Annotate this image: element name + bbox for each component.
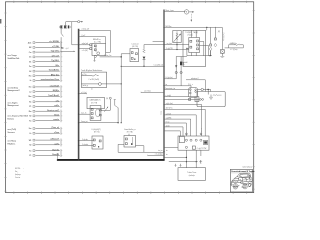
svg-text:x-C(w)l: x-C(w)l — [166, 113, 172, 115]
svg-text:C+lp.de: C+lp.de — [82, 139, 88, 141]
svg-text:C+km_1w: C+km_1w — [104, 55, 112, 57]
svg-text:GNx: GNx — [55, 65, 59, 67]
svg-text:x(10): x(10) — [166, 125, 170, 127]
svg-text:P1: P1 — [29, 106, 31, 108]
svg-text:Main_Lynx: Main_Lynx — [166, 10, 174, 12]
svg-text:Z1: Z1 — [29, 155, 31, 157]
svg-text:x (Tx): x (Tx) — [82, 74, 87, 76]
svg-text:BK/L Twx: BK/L Twx — [51, 74, 59, 76]
svg-text:C w/TB (Tw/R): C w/TB (Tw/R) — [88, 79, 99, 81]
svg-text:Crosstied-towed X Trojan: Crosstied-towed X Trojan — [231, 170, 255, 173]
svg-text:Nx: Nx — [29, 102, 31, 104]
svg-text:X2: X2 — [29, 145, 31, 147]
svg-text:x C+(W): x C+(W) — [82, 50, 88, 52]
svg-text:Turbo Time: Turbo Time — [187, 172, 196, 174]
svg-text:C+km_txt: C+km_txt — [131, 42, 139, 45]
svg-text:LABEL(ABC?): LABEL(ABC?) — [90, 98, 101, 101]
svg-text:Fw_: Fw_ — [15, 171, 18, 173]
svg-text:nnn Jeepony Vibe Ethel: nnn Jeepony Vibe Ethel — [8, 114, 29, 117]
svg-text:x(T) xwT: x(T) xwT — [52, 56, 60, 58]
svg-text:(R / TB): (R / TB) — [127, 132, 133, 134]
svg-text:(Tw/WxTw)w: (Tw/WxTw)w — [222, 33, 224, 42]
svg-text:BK(B)x: BK(B)x — [53, 90, 59, 92]
svg-text:T(g) BLK: T(g) BLK — [51, 60, 59, 62]
svg-text:S2: S2 — [29, 116, 31, 118]
svg-text:BwwTw: BwwTw — [52, 149, 59, 151]
svg-text:nnn Jingles: nnn Jingles — [8, 102, 18, 104]
svg-text:C+(0)x(0)(T): C+(0)x(0)(T) — [91, 129, 101, 131]
svg-text:NOTE:: NOTE: — [15, 168, 21, 170]
svg-text:C+(p)TW: C+(p)TW — [166, 48, 173, 50]
svg-text:TwwR BwxR: TwwR BwxR — [48, 95, 59, 97]
svg-text:nnn (TxD): nnn (TxD) — [8, 129, 17, 131]
svg-text:C+(p) TC/TW: C+(p) TC/TW — [197, 148, 207, 150]
svg-text:xww/w: xww/w — [53, 119, 59, 121]
svg-text:Rhythms: Rhythms — [8, 143, 16, 146]
svg-text:(tw)mgr: (tw)mgr — [15, 173, 21, 176]
svg-text:x(T) WH: x(T) WH — [52, 46, 60, 48]
svg-text:(w?: (w? — [66, 48, 69, 50]
svg-text:Echoes: Echoes — [8, 118, 15, 120]
svg-text:nnn Tango: nnn Tango — [8, 55, 18, 57]
svg-text:G2: G2 — [29, 71, 31, 73]
svg-text:(T+)_x: (T+)_x — [188, 84, 193, 86]
svg-text:Cw+tw: Cw+tw — [15, 176, 21, 179]
svg-text:Sensors: Sensors — [8, 132, 15, 134]
svg-text:twtw tw/tw-w: twtw tw/tw-w — [243, 165, 253, 168]
svg-text:W1: W1 — [29, 140, 32, 142]
svg-text:( )w?: ( )w? — [82, 35, 86, 37]
svg-text:Management?: Management? — [8, 89, 21, 92]
svg-text:(TC? TB: (TC? TB — [91, 102, 97, 104]
svg-text:Regnign xw/T: Regnign xw/T — [47, 110, 60, 112]
svg-text:B2: B2 — [29, 47, 31, 49]
svg-text:nTx: nTx — [56, 100, 59, 102]
svg-text:(Tww): (Tww) — [54, 115, 59, 117]
svg-text:Vx: Vx — [29, 133, 31, 135]
svg-text:(Tww_w): (Tww_w) — [52, 127, 60, 129]
svg-text:w (tw)_wtf: w (tw)_wtf — [82, 28, 90, 31]
svg-text:L2: L2 — [29, 91, 31, 93]
svg-text:(R / TB): (R / TB) — [132, 46, 138, 48]
svg-text:www/www/wwwT/ww: www/www/wwwT/ww — [41, 79, 60, 81]
svg-text:(T)w(1): (T)w(1) — [188, 34, 194, 36]
svg-text:E1: E1 — [29, 61, 31, 63]
svg-text:Aw1: Aw1 — [28, 41, 32, 44]
svg-text:RELAY w: RELAY w — [93, 38, 101, 41]
svg-text:x/c_BR/WH: x/c_BR/WH — [49, 41, 59, 43]
svg-text:Can_In: Can_In — [81, 113, 86, 115]
svg-text:Jx: Jx — [29, 80, 31, 82]
svg-text:C+lm.de: C+lm.de — [82, 144, 88, 146]
svg-text:MC(3)w: MC(3)w — [166, 26, 173, 28]
svg-text:Management: Management — [8, 104, 20, 107]
svg-text:w/BwwwT: w/BwwwT — [50, 139, 60, 141]
svg-text:nnn DaTaCy: nnn DaTaCy — [8, 87, 19, 89]
svg-text:Y(g) GN/L: Y(g) GN/L — [51, 51, 60, 53]
svg-text:(Tw)w: (Tw)w — [160, 111, 162, 115]
svg-text:C+0_jB(C+0): C+0_jB(C+0) — [154, 65, 164, 67]
svg-text:SomeStellar_w: SomeStellar_w — [124, 128, 136, 131]
svg-text:x-g(W)k: x-g(W)k — [166, 118, 172, 120]
svg-text:xTww: xTww — [54, 132, 59, 134]
svg-text:Tenth Rhythm Modulations: Tenth Rhythm Modulations — [81, 69, 102, 72]
svg-text:Dx: Dx — [29, 57, 31, 59]
svg-text:x C+(w)(p): x C+(w)(p) — [155, 154, 163, 156]
svg-text:Twist(B) Bw: Twist(B) Bw — [49, 69, 60, 72]
svg-text:nnn Moxy: nnn Moxy — [8, 141, 17, 143]
svg-text:Stuff/StarTalk: Stuff/StarTalk — [8, 57, 21, 60]
svg-text:Rww(B): Rww(B) — [52, 154, 59, 156]
svg-text:x C+(p): x C+(p) — [81, 92, 87, 94]
svg-text:xwTx: xwTx — [54, 143, 59, 145]
svg-text:(R / T0): (R / T0) — [94, 132, 100, 134]
svg-text:n/nw(T)wR: n/nw(T)wR — [50, 86, 60, 88]
svg-text:xwRx: xwRx — [54, 105, 59, 107]
